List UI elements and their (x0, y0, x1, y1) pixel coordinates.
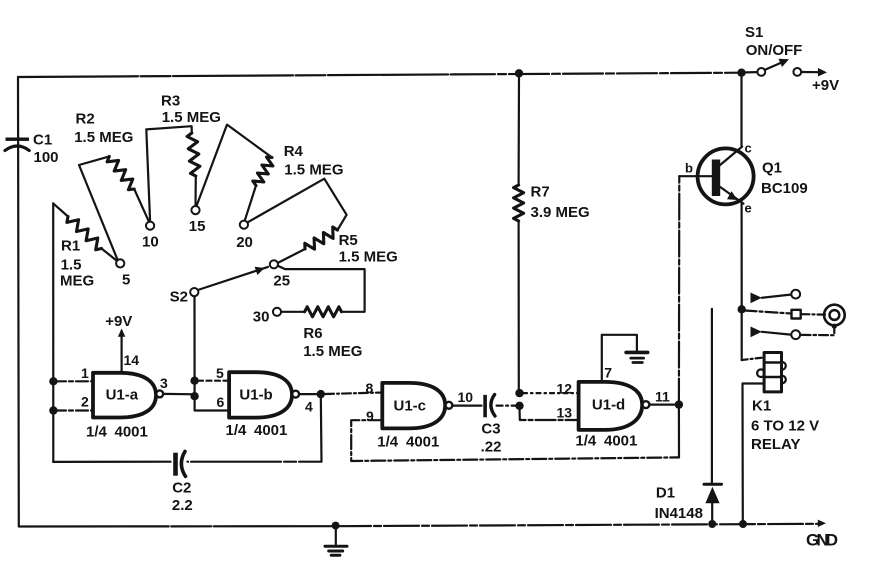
svg-text:1.5 MEG: 1.5 MEG (74, 129, 133, 146)
svg-text:.22: .22 (481, 439, 502, 456)
resistor R6 (278, 266, 364, 360)
relay contact NC (top) (751, 290, 801, 304)
svg-text:14: 14 (124, 352, 140, 368)
svg-text:U1-c: U1-c (394, 398, 427, 415)
resistor R1 (53, 203, 116, 289)
svg-text:4001: 4001 (115, 424, 148, 441)
wire U1-d output to node 11 (650, 404, 680, 406)
svg-text:1.5 MEG: 1.5 MEG (303, 343, 362, 360)
node contact 5 (116, 259, 130, 288)
svg-text:100: 100 (34, 149, 59, 166)
svg-text:15: 15 (189, 218, 206, 235)
wire node 11 down to feedback (678, 405, 680, 458)
node GND arrow (818, 520, 826, 527)
svg-text:R1: R1 (61, 238, 80, 255)
svg-text:IN4148: IN4148 (655, 505, 703, 522)
wire pin 5 input (dashed) (198, 380, 229, 382)
relay contact NO (bottom) (751, 324, 837, 340)
node contact 30 (253, 308, 281, 326)
node contact 20 (236, 221, 253, 251)
svg-text:7: 7 (604, 364, 612, 380)
svg-text:1/4: 1/4 (377, 434, 399, 451)
svg-text:K1: K1 (752, 398, 771, 415)
svg-text:C2: C2 (172, 480, 191, 497)
wire bottom ground bus (right dash-dot) (336, 524, 818, 526)
svg-text:R3: R3 (161, 93, 180, 110)
capacitor C1 (5, 132, 59, 167)
wire node4 to pin 8 (dash-dot) (325, 393, 382, 395)
wire pin 9 feedback from U1-d output (351, 420, 679, 461)
gate U1-c (1/4 4001) (377, 383, 452, 451)
svg-text:10: 10 (458, 389, 474, 405)
wire U1-b output to node 4 (300, 393, 323, 395)
svg-text:13: 13 (557, 405, 573, 421)
svg-text:6 TO 12 V: 6 TO 12 V (751, 418, 819, 435)
wire top supply bus (left solid) (18, 74, 455, 77)
svg-text:3.9 MEG: 3.9 MEG (531, 204, 590, 221)
node junction bus / Q1 (737, 69, 745, 77)
svg-text:4001: 4001 (254, 422, 287, 439)
wire pin 1 input (54, 380, 93, 382)
relay contact wiper (middle) (745, 310, 826, 319)
switch S1 ON/OFF (742, 24, 840, 94)
transistor Q1 BC109 (685, 141, 808, 216)
node junction output/pin6 (190, 392, 198, 400)
wire pin 6 elbow (195, 396, 230, 410)
svg-text:RELAY: RELAY (751, 436, 800, 453)
node junction pin 13 / C3 (515, 402, 523, 410)
node contact 15 (189, 206, 206, 235)
svg-text:R7: R7 (531, 184, 550, 201)
wire bottom ground bus (left) (19, 525, 336, 527)
svg-text:1/4: 1/4 (86, 424, 108, 441)
svg-text:BC109: BC109 (761, 180, 808, 197)
ground (bottom bus) (325, 526, 347, 555)
node junction bottom bus / D1 (708, 520, 716, 528)
resistor R2 (74, 111, 149, 260)
node junction 4 (317, 390, 325, 398)
wire pin 13 elbow (520, 406, 579, 420)
gate U1-a (1/4 4001) (86, 373, 163, 441)
svg-text:MEG: MEG (60, 273, 94, 290)
svg-text:11: 11 (655, 388, 670, 404)
svg-text:5: 5 (216, 365, 224, 381)
svg-text:25: 25 (273, 273, 290, 290)
gate U1-b (1/4 4001) (226, 372, 300, 439)
wire R1 node vertical to gate inputs (52, 203, 54, 462)
svg-text:1.5 MEG: 1.5 MEG (339, 249, 398, 266)
svg-text:4: 4 (305, 399, 313, 415)
wire pin 2 input (54, 409, 93, 411)
svg-text:S1: S1 (745, 24, 763, 41)
svg-text:2.2: 2.2 (172, 497, 193, 514)
svg-text:U1-d: U1-d (592, 397, 625, 414)
resistor R3 (146, 93, 221, 222)
wire coil lower terminal to ground bus (743, 384, 765, 525)
node junction bottom bus / ground (332, 522, 340, 530)
svg-text:U1-b: U1-b (239, 386, 272, 403)
wire top supply bus (right dash-dot) (455, 73, 742, 75)
wire left bus vertical (17, 77, 20, 526)
svg-text:C3: C3 (481, 421, 500, 438)
svg-text:10: 10 (142, 234, 159, 251)
svg-text:D1: D1 (656, 485, 675, 502)
resistor R5 (248, 179, 398, 266)
wire pin 14 to +9V (105, 313, 139, 373)
svg-text:b: b (685, 161, 693, 176)
node junction top bus / R7 (515, 69, 523, 77)
wire emitter node to coil (upper terminal) (742, 309, 764, 360)
svg-text:8: 8 (366, 380, 374, 396)
wire Q1 emitter down (740, 204, 742, 310)
diode D1 IN4148 (655, 309, 722, 524)
svg-text:R4: R4 (284, 143, 304, 160)
svg-text:2: 2 (81, 394, 89, 410)
svg-text:e: e (745, 201, 752, 216)
svg-text:1.5: 1.5 (61, 257, 82, 274)
svg-text:12: 12 (557, 380, 573, 396)
svg-text:R5: R5 (339, 232, 358, 249)
svg-text:S2: S2 (170, 289, 188, 306)
svg-text:9: 9 (366, 408, 374, 424)
svg-text:+9V: +9V (812, 77, 839, 94)
node junction bottom bus / relay (739, 520, 747, 528)
svg-text:ON/OFF: ON/OFF (746, 42, 803, 59)
svg-text:1/4: 1/4 (575, 433, 597, 450)
node junction pin 12 (515, 389, 523, 397)
svg-text:5: 5 (122, 272, 130, 289)
svg-text:GND: GND (806, 531, 838, 550)
svg-text:6: 6 (217, 394, 225, 410)
svg-text:+9V: +9V (105, 313, 132, 330)
node contact 10 (142, 222, 159, 251)
wire S2 stem to U1-a output node (193, 297, 195, 396)
capacitor C2 with feedback wire (53, 394, 321, 514)
svg-text:4001: 4001 (406, 434, 439, 451)
svg-text:3: 3 (160, 375, 168, 391)
svg-text:Q1: Q1 (762, 160, 782, 177)
svg-text:20: 20 (236, 234, 253, 251)
svg-text:30: 30 (253, 309, 270, 326)
node junction emitter / contacts / coil (738, 305, 746, 313)
svg-text:1.5 MEG: 1.5 MEG (284, 162, 343, 179)
node junction pin1 (49, 377, 57, 385)
node junction 11 (675, 400, 683, 408)
capacitor C3 (453, 395, 517, 456)
wire pin 7 to ground (602, 335, 637, 382)
node junction pin2 (49, 406, 57, 414)
gate U1-d (1/4 4001) (575, 382, 649, 450)
wire node 11 up to Q1 base (679, 176, 713, 404)
switch S2 rotary wiper (170, 267, 268, 306)
ground (pin 7) (626, 352, 648, 362)
svg-text:4001: 4001 (604, 433, 637, 450)
svg-text:c: c (745, 141, 752, 156)
wire pin 12 input (dashed) (523, 392, 579, 394)
wire Q1 collector to bus (740, 73, 742, 146)
wire U1-a output to node (163, 393, 196, 396)
node contact 25 (270, 260, 290, 289)
output jack (824, 305, 845, 326)
svg-text:R2: R2 (76, 111, 95, 128)
svg-text:1/4: 1/4 (226, 422, 248, 439)
resistor R7 (514, 73, 590, 393)
resistor R4 (197, 125, 344, 221)
node junction S2/pin5 (190, 377, 198, 385)
svg-text:1: 1 (81, 365, 89, 381)
relay K1 coil (751, 353, 819, 454)
svg-text:R6: R6 (303, 325, 322, 342)
svg-text:C1: C1 (33, 132, 52, 149)
svg-text:U1-a: U1-a (106, 386, 139, 403)
svg-text:1.5 MEG: 1.5 MEG (162, 109, 221, 126)
